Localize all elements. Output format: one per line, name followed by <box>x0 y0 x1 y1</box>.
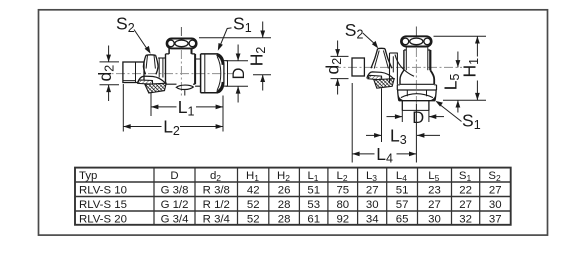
dimension L5 (right) <box>457 52 459 68</box>
centerline vertical right valve <box>415 27 417 37</box>
svg-text:27: 27 <box>366 184 379 196</box>
border frame <box>39 10 548 235</box>
union nut (right valve bottom) <box>397 85 436 90</box>
svg-text:75: 75 <box>336 184 349 196</box>
dimension D (left) <box>226 60 248 62</box>
svg-text:51: 51 <box>396 184 409 196</box>
label S1 (right) <box>462 111 481 133</box>
svg-text:27: 27 <box>459 199 472 211</box>
label S2 (left) <box>116 14 135 36</box>
dimension D (right) <box>401 111 403 123</box>
centerline horizontal left valve <box>100 73 233 75</box>
handle (right valve) <box>401 36 432 46</box>
nut chamfer crescents (right valve) <box>398 95 405 101</box>
svg-text:Typ: Typ <box>79 170 97 182</box>
centerline horizontal right valve <box>332 66 462 68</box>
valve body T (left valve) <box>168 49 170 54</box>
body flare to union nut <box>400 70 404 84</box>
svg-text:R 3/4: R 3/4 <box>203 213 230 225</box>
svg-text:RLV-S 15: RLV-S 15 <box>79 199 127 211</box>
svg-text:32: 32 <box>459 213 472 225</box>
svg-text:G 3/4: G 3/4 <box>161 213 189 225</box>
dimension L4 (right) <box>351 83 353 163</box>
dimension H2 (left) <box>199 37 271 39</box>
dimension d2 (right) <box>331 55 349 57</box>
bottom outlet lens (left valve) <box>176 85 193 89</box>
hatched cone (right valve section) <box>368 75 382 80</box>
pipe stub d2 (right valve tail) <box>352 58 364 76</box>
tail pipe below nut (right valve) <box>402 101 429 111</box>
table outer border <box>75 168 511 225</box>
svg-text:28: 28 <box>278 213 291 225</box>
svg-text:30: 30 <box>489 199 502 211</box>
centerline vertical left valve <box>180 27 182 36</box>
dimension d2 (left) <box>100 61 120 63</box>
body flange between nut and body <box>158 57 165 59</box>
svg-text:30: 30 <box>366 199 379 211</box>
svg-text:23: 23 <box>428 184 441 196</box>
hex nut S2 (right valve) <box>378 47 385 49</box>
svg-text:R 3/8: R 3/8 <box>203 184 230 196</box>
svg-text:D: D <box>230 68 248 80</box>
svg-text:D: D <box>170 170 178 182</box>
hatched cone (left valve section) <box>138 80 153 84</box>
body inlet flange (right valve) <box>389 53 391 84</box>
svg-text:61: 61 <box>307 213 320 225</box>
table text <box>79 170 502 225</box>
handle (left valve) <box>167 39 197 49</box>
svg-text:D: D <box>412 109 424 127</box>
dimension L2 (left) <box>122 84 124 132</box>
svg-text:52: 52 <box>247 199 260 211</box>
svg-text:80: 80 <box>336 199 349 211</box>
leader S2 <box>134 30 149 52</box>
svg-text:27: 27 <box>489 184 502 196</box>
pipe stub d2 (left valve tail) <box>123 62 144 83</box>
svg-text:RLV-S 10: RLV-S 10 <box>79 184 127 196</box>
dimension L1 (left) <box>150 92 152 116</box>
leader S1 right <box>440 104 462 121</box>
leader S2 right <box>363 33 376 45</box>
union nut (left valve right side) <box>195 59 200 86</box>
svg-text:R 1/2: R 1/2 <box>203 199 230 211</box>
leader S1 <box>219 28 231 47</box>
dimension H1 (right) <box>434 35 487 37</box>
svg-text:92: 92 <box>336 213 349 225</box>
svg-text:37: 37 <box>489 213 502 225</box>
table column lines <box>153 168 155 225</box>
svg-text:G 3/8: G 3/8 <box>161 184 189 196</box>
svg-text:65: 65 <box>396 213 409 225</box>
body curve arc <box>395 55 414 77</box>
svg-text:57: 57 <box>396 199 409 211</box>
svg-text:34: 34 <box>366 213 379 225</box>
svg-text:22: 22 <box>459 184 472 196</box>
label S2 (right) <box>345 20 364 42</box>
svg-text:27: 27 <box>428 199 441 211</box>
pipe end right of nut <box>224 61 228 87</box>
table row lines <box>75 181 511 183</box>
svg-text:30: 30 <box>428 213 441 225</box>
svg-text:RLV-S 20: RLV-S 20 <box>79 213 127 225</box>
label S1 (left) <box>233 14 252 36</box>
svg-text:51: 51 <box>307 184 320 196</box>
dimension L3 (right) <box>381 88 383 142</box>
hex nut S2 (left valve) <box>146 54 156 56</box>
svg-text:42: 42 <box>247 184 260 196</box>
nut chamfer crescents <box>217 55 223 65</box>
valve body (right valve) <box>405 47 407 70</box>
svg-text:53: 53 <box>307 199 320 211</box>
svg-text:28: 28 <box>278 199 291 211</box>
svg-text:26: 26 <box>278 184 291 196</box>
svg-text:52: 52 <box>247 213 260 225</box>
svg-text:G 1/2: G 1/2 <box>161 199 189 211</box>
